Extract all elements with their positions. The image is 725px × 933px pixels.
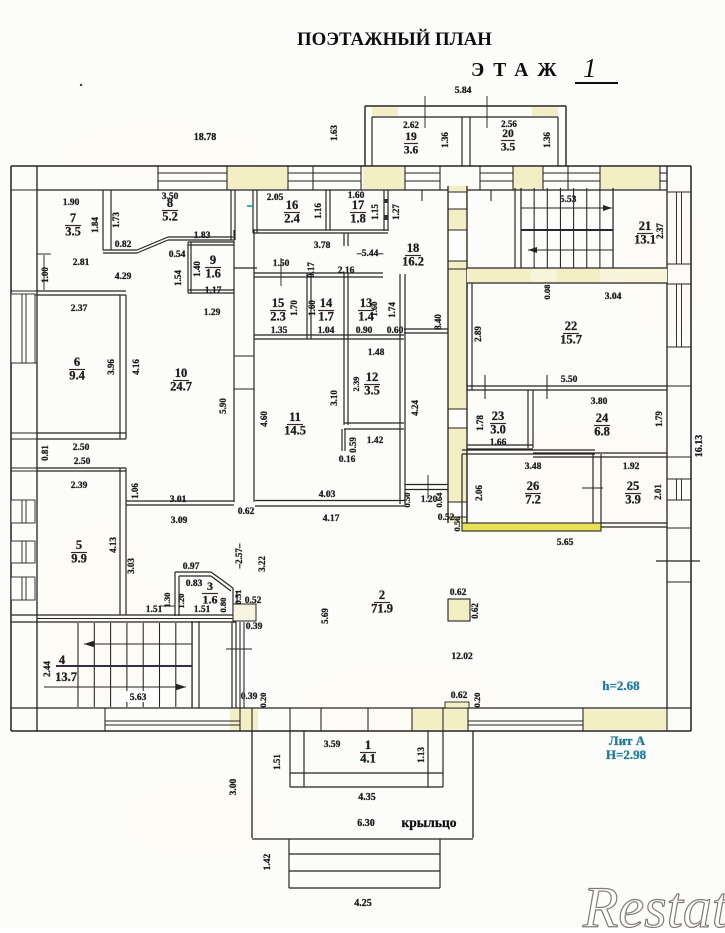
svg-text:1.73: 1.73 <box>111 212 121 228</box>
svg-text:5.53: 5.53 <box>560 195 577 205</box>
svg-text:1.70: 1.70 <box>289 300 299 316</box>
svg-text:3.00: 3.00 <box>229 778 239 795</box>
svg-text:17: 17 <box>352 198 365 212</box>
svg-text:0.08: 0.08 <box>542 285 552 300</box>
svg-text:3.01: 3.01 <box>170 495 187 505</box>
svg-text:8: 8 <box>167 196 173 210</box>
svg-text:6: 6 <box>74 355 80 369</box>
svg-text:24.7: 24.7 <box>170 380 192 394</box>
svg-text:1.51: 1.51 <box>272 754 282 770</box>
svg-text:12: 12 <box>366 370 379 384</box>
svg-text:1.40: 1.40 <box>192 261 202 277</box>
svg-text:2.37: 2.37 <box>71 304 88 314</box>
svg-text:3.22: 3.22 <box>257 556 267 572</box>
svg-text:Restate: Restate <box>582 875 725 928</box>
svg-text:12.02: 12.02 <box>451 652 473 662</box>
svg-text:5.90: 5.90 <box>218 398 228 414</box>
svg-text:0.81: 0.81 <box>40 445 50 461</box>
svg-text:1.90: 1.90 <box>63 198 80 208</box>
svg-text:10: 10 <box>175 366 188 380</box>
svg-text:1.84: 1.84 <box>90 217 100 233</box>
svg-text:6.30: 6.30 <box>357 818 375 829</box>
svg-text:5.63: 5.63 <box>130 693 147 703</box>
svg-text:1.29: 1.29 <box>204 308 221 318</box>
svg-text:3.80: 3.80 <box>591 397 608 407</box>
svg-text:1.74: 1.74 <box>387 302 397 318</box>
svg-text:1.04: 1.04 <box>318 326 335 336</box>
svg-text:3.5: 3.5 <box>501 142 516 154</box>
svg-text:3.04: 3.04 <box>605 292 622 302</box>
svg-text:2.4: 2.4 <box>284 212 300 226</box>
svg-text:1.17: 1.17 <box>205 286 222 296</box>
svg-text:3: 3 <box>207 579 213 593</box>
svg-text:1.63: 1.63 <box>329 125 339 141</box>
svg-text:3.48: 3.48 <box>525 462 542 472</box>
svg-text:1.35: 1.35 <box>271 326 288 336</box>
svg-text:ЭТАЖ: ЭТАЖ <box>471 60 566 81</box>
svg-text:0.90: 0.90 <box>356 326 373 336</box>
svg-text:1: 1 <box>365 738 371 752</box>
svg-text:2.05: 2.05 <box>267 193 284 203</box>
svg-text:4.24: 4.24 <box>410 400 420 416</box>
svg-text:1.60: 1.60 <box>369 302 379 317</box>
svg-text:0.97: 0.97 <box>183 562 200 572</box>
svg-text:1.13: 1.13 <box>416 747 426 763</box>
svg-text:0.52: 0.52 <box>245 596 262 606</box>
svg-text:1.30: 1.30 <box>162 593 172 608</box>
svg-text:1.51: 1.51 <box>194 605 211 615</box>
svg-text:18.78: 18.78 <box>194 132 217 143</box>
svg-text:16.13: 16.13 <box>694 435 705 458</box>
svg-text:1.92: 1.92 <box>623 462 640 472</box>
svg-text:ПОЭТАЖНЫЙ ПЛАН: ПОЭТАЖНЫЙ ПЛАН <box>297 28 492 50</box>
svg-text:2.89: 2.89 <box>473 326 483 342</box>
svg-text:15: 15 <box>272 296 285 310</box>
svg-text:4.1: 4.1 <box>360 752 376 766</box>
svg-text:9.9: 9.9 <box>71 552 87 566</box>
svg-text:24: 24 <box>596 411 609 425</box>
svg-text:4.03: 4.03 <box>319 490 336 500</box>
svg-text:22: 22 <box>565 319 578 333</box>
svg-text:4.25: 4.25 <box>354 898 372 909</box>
svg-text:71.9: 71.9 <box>371 602 393 616</box>
svg-text:3.0: 3.0 <box>490 423 506 437</box>
svg-text:0.17: 0.17 <box>306 262 316 278</box>
svg-text:2.81: 2.81 <box>73 258 90 268</box>
svg-text:3.9: 3.9 <box>625 493 641 507</box>
svg-text:9.4: 9.4 <box>69 369 85 383</box>
svg-text:0.62: 0.62 <box>238 507 255 517</box>
svg-text:2.39: 2.39 <box>71 481 88 491</box>
svg-text:1.8: 1.8 <box>350 212 366 226</box>
svg-text:1.27: 1.27 <box>391 204 401 220</box>
svg-text:5.65: 5.65 <box>557 538 574 548</box>
svg-text:3.03: 3.03 <box>126 558 136 574</box>
svg-text:14: 14 <box>320 296 333 310</box>
svg-text:–5.44–: –5.44– <box>356 249 383 259</box>
svg-text:Лит А: Лит А <box>609 733 646 748</box>
svg-text:26: 26 <box>527 479 540 493</box>
svg-text:21: 21 <box>639 219 652 233</box>
svg-text:1.6: 1.6 <box>205 267 221 281</box>
svg-text:1.36: 1.36 <box>440 132 450 148</box>
svg-text:2.50: 2.50 <box>73 443 90 453</box>
svg-text:16: 16 <box>286 198 299 212</box>
svg-text:9: 9 <box>210 253 216 267</box>
svg-text:крыльцо: крыльцо <box>401 815 456 830</box>
svg-text:1.48: 1.48 <box>368 348 385 358</box>
svg-text:25: 25 <box>627 479 640 493</box>
svg-text:4.35: 4.35 <box>358 792 376 803</box>
svg-text:1.00: 1.00 <box>40 267 50 283</box>
svg-text:2.44: 2.44 <box>42 661 52 677</box>
svg-text:2.06: 2.06 <box>474 485 484 501</box>
svg-text:20: 20 <box>502 128 514 140</box>
svg-text:1.51: 1.51 <box>146 605 163 615</box>
svg-text:1.15: 1.15 <box>370 204 380 220</box>
svg-text:2.3: 2.3 <box>270 310 286 324</box>
svg-text:8.40: 8.40 <box>433 314 443 330</box>
svg-text:h=2.68: h=2.68 <box>602 678 640 693</box>
svg-text:1.16: 1.16 <box>313 203 323 219</box>
svg-text:1.42: 1.42 <box>263 853 273 870</box>
svg-text:0.39: 0.39 <box>246 622 263 632</box>
svg-text:2.16: 2.16 <box>338 266 355 276</box>
svg-text:2.37: 2.37 <box>655 223 665 239</box>
svg-text:15.7: 15.7 <box>560 333 582 347</box>
svg-text:11: 11 <box>289 410 301 424</box>
svg-text:1.66: 1.66 <box>490 438 507 448</box>
svg-text:0.20: 0.20 <box>258 693 268 708</box>
svg-text:3.5: 3.5 <box>65 225 81 239</box>
svg-text:0.39: 0.39 <box>241 692 258 702</box>
svg-text:5.50: 5.50 <box>561 375 578 385</box>
svg-text:0.60: 0.60 <box>387 326 404 336</box>
svg-text:2: 2 <box>379 588 385 602</box>
svg-text:0.59: 0.59 <box>348 437 358 453</box>
svg-text:1.42: 1.42 <box>367 436 384 446</box>
svg-text:1.06: 1.06 <box>130 483 140 499</box>
svg-text:7: 7 <box>70 211 76 225</box>
svg-text:0.20: 0.20 <box>472 693 482 708</box>
svg-text:4.60: 4.60 <box>259 411 269 427</box>
svg-text:0.50: 0.50 <box>402 493 412 508</box>
svg-text:1.50: 1.50 <box>273 259 290 269</box>
svg-text:0.62: 0.62 <box>451 691 468 701</box>
svg-text:0.83: 0.83 <box>186 579 203 589</box>
svg-text:1.78: 1.78 <box>475 415 485 431</box>
svg-text:1.79: 1.79 <box>654 411 664 427</box>
svg-text:2.01: 2.01 <box>653 484 663 500</box>
svg-text:4.17: 4.17 <box>323 514 340 524</box>
svg-text:13.7: 13.7 <box>55 670 77 684</box>
svg-text:4.13: 4.13 <box>108 537 118 553</box>
svg-text:3.96: 3.96 <box>106 359 116 375</box>
svg-text:0.51: 0.51 <box>233 590 243 605</box>
svg-text:23: 23 <box>492 409 505 423</box>
svg-text:1: 1 <box>583 53 597 83</box>
svg-text:3.59: 3.59 <box>324 740 341 750</box>
svg-text:0.80: 0.80 <box>218 598 228 613</box>
svg-text:1.36: 1.36 <box>542 132 552 148</box>
svg-text:0.16: 0.16 <box>339 455 356 465</box>
svg-text:3.6: 3.6 <box>404 145 419 157</box>
svg-text:1.54: 1.54 <box>173 270 183 286</box>
svg-text:1.20: 1.20 <box>176 594 186 609</box>
svg-text:0.64: 0.64 <box>434 492 444 508</box>
svg-text:3.5: 3.5 <box>364 384 380 398</box>
svg-text:13.1: 13.1 <box>634 233 656 247</box>
svg-text:4.16: 4.16 <box>131 359 141 375</box>
svg-text:0.62: 0.62 <box>450 588 467 598</box>
svg-text:Н=2.98: Н=2.98 <box>606 747 647 762</box>
svg-text:5.69: 5.69 <box>320 608 330 624</box>
svg-text:1.7: 1.7 <box>318 310 334 324</box>
svg-text:14.5: 14.5 <box>284 424 306 438</box>
svg-text:19: 19 <box>405 131 417 143</box>
svg-text:7.2: 7.2 <box>525 493 541 507</box>
svg-text:0.82: 0.82 <box>115 240 132 250</box>
svg-text:5.84: 5.84 <box>455 86 472 96</box>
svg-text:0.62: 0.62 <box>470 603 480 619</box>
svg-text:1.60: 1.60 <box>307 300 317 316</box>
svg-text:1.83: 1.83 <box>194 231 211 241</box>
svg-text:0.54: 0.54 <box>169 250 186 260</box>
svg-text:3.78: 3.78 <box>314 241 331 251</box>
svg-text:6.8: 6.8 <box>594 425 610 439</box>
svg-text:18: 18 <box>407 241 420 255</box>
svg-text:5.2: 5.2 <box>162 210 178 224</box>
svg-text:4: 4 <box>59 653 66 667</box>
svg-text:2.39: 2.39 <box>351 377 361 392</box>
svg-text:2.62: 2.62 <box>403 120 419 130</box>
svg-text:16.2: 16.2 <box>402 255 424 269</box>
svg-text:5: 5 <box>76 538 82 552</box>
svg-text:3.09: 3.09 <box>171 516 188 526</box>
svg-text:3.10: 3.10 <box>329 390 339 406</box>
svg-text:0.56: 0.56 <box>452 517 462 532</box>
svg-text:4.29: 4.29 <box>115 272 132 282</box>
svg-text:–2.57–: –2.57– <box>234 543 244 569</box>
svg-text:2.50: 2.50 <box>74 457 91 467</box>
